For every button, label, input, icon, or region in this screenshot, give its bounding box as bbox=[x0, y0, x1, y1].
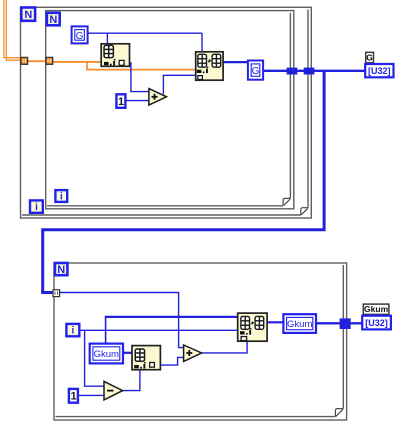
svg-text:G: G bbox=[252, 66, 260, 77]
svg-text:G: G bbox=[366, 52, 373, 62]
svg-text:N: N bbox=[24, 9, 32, 21]
svg-text:N: N bbox=[57, 264, 65, 276]
svg-text:i: i bbox=[60, 192, 63, 203]
svg-text:[U32]: [U32] bbox=[365, 318, 388, 328]
svg-text:i: i bbox=[72, 326, 75, 337]
svg-text:Gkum: Gkum bbox=[94, 349, 119, 360]
svg-text:i: i bbox=[35, 202, 38, 213]
svg-text:Gkum: Gkum bbox=[287, 319, 312, 330]
svg-text:[U32]: [U32] bbox=[368, 66, 391, 76]
svg-text:1: 1 bbox=[70, 391, 76, 403]
svg-text:1: 1 bbox=[118, 96, 124, 108]
svg-text:N: N bbox=[49, 14, 57, 26]
svg-text:Gkum: Gkum bbox=[364, 304, 389, 314]
svg-text:G: G bbox=[76, 31, 84, 42]
